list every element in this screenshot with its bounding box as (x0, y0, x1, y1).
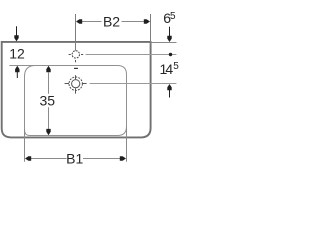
svg-text:5: 5 (173, 61, 179, 72)
svg-text:4: 4 (165, 61, 173, 77)
35 up arrowhead (46, 66, 50, 72)
14.5 up arrow (167, 84, 171, 90)
drain bottom tick (75, 88, 77, 93)
14.5 dot marker (169, 53, 172, 56)
drain inner circle (72, 80, 80, 88)
B1 right extension line (126, 126, 128, 162)
drain top tick (75, 75, 77, 79)
svg-text:35: 35 (40, 92, 56, 108)
35 down arrowhead (46, 129, 50, 135)
12 down arrow (16, 26, 18, 35)
tap hole circle (72, 51, 79, 58)
svg-text:5: 5 (170, 11, 176, 22)
12 up arrow (15, 66, 19, 72)
dash below tap hole (74, 67, 78, 69)
svg-text:12: 12 (9, 45, 25, 61)
35 dimension line lower segment (48, 107, 50, 129)
inner bowl outline (25, 66, 127, 136)
B1 dimension line right segment (83, 158, 122, 160)
tap hole vertical centerline / B2 left extension (75, 14, 77, 51)
svg-text:B1: B1 (66, 150, 83, 166)
svg-text:B2: B2 (103, 13, 120, 29)
B1 dimension line left segment (30, 158, 67, 160)
35 dimension line upper segment (48, 72, 50, 94)
B1 left arrowhead (25, 156, 31, 160)
tap hole right tick (81, 54, 83, 56)
B1 right arrowhead (120, 156, 126, 160)
tap hole bottom tick (75, 60, 77, 62)
bowl top edge extension (left) (9, 65, 38, 67)
B2 right extension line (150, 14, 152, 45)
drain left tick (65, 83, 69, 85)
B2 left arrowhead (76, 19, 82, 23)
drain centerline extended right (90, 83, 177, 85)
B2 dimension line right segment (122, 21, 146, 23)
tap centerline extended right (86, 54, 177, 56)
B2 right arrowhead (144, 19, 150, 23)
drain outer circle (69, 77, 82, 90)
outer basin outline (2, 42, 151, 137)
6.5 down arrow (169, 27, 171, 36)
6.5 extension line (top edge extended right) (152, 42, 177, 44)
B1 left extension line (24, 129, 26, 162)
tap hole left tick (69, 54, 71, 56)
B2 dimension line left segment (81, 21, 102, 23)
drain right tick (82, 83, 86, 85)
